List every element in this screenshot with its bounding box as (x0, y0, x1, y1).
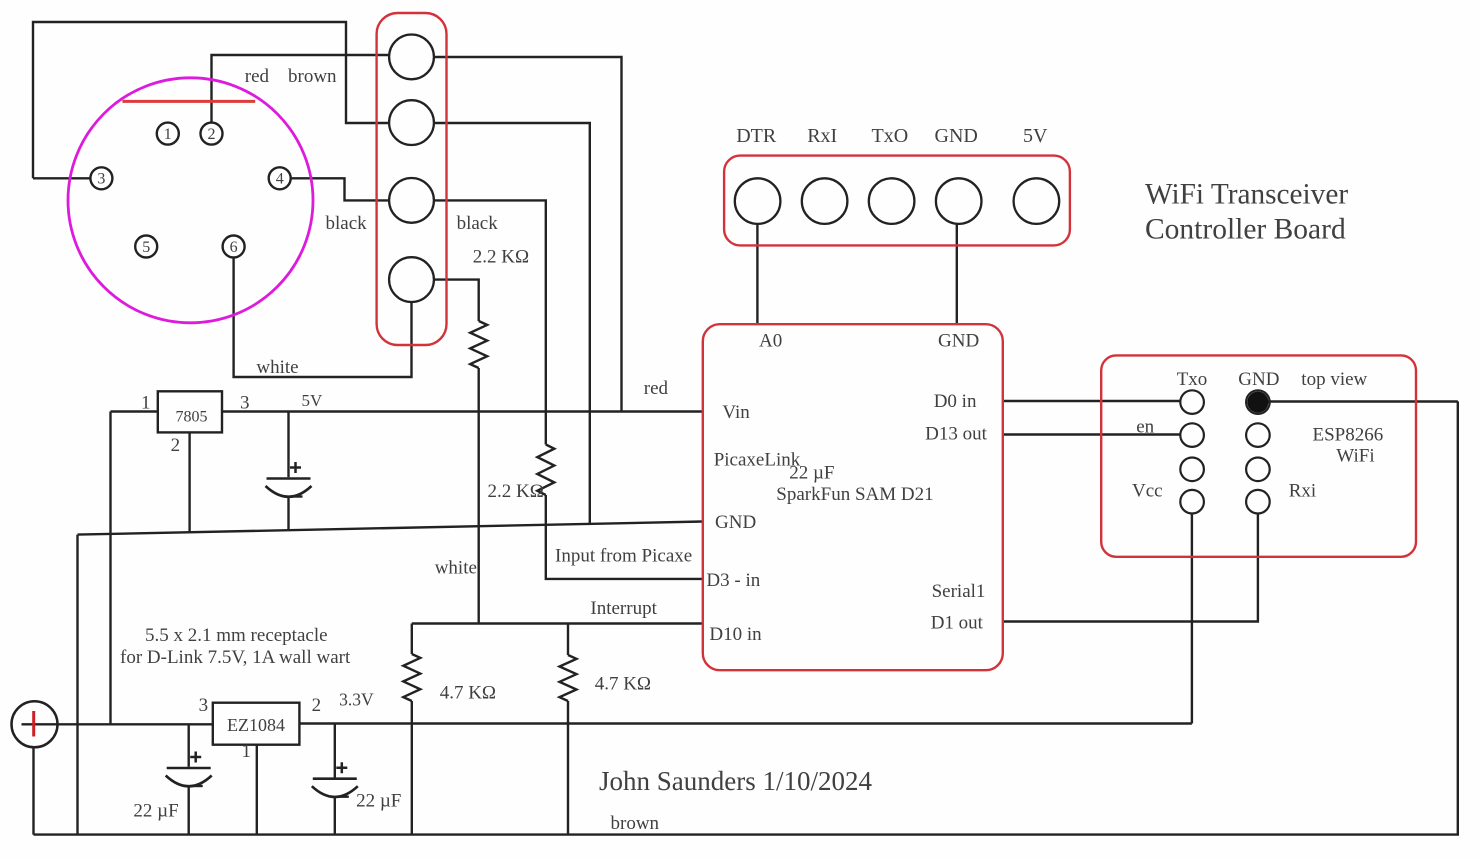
svg-text:4.7 KΩ: 4.7 KΩ (440, 682, 496, 703)
svg-text:6: 6 (230, 239, 238, 256)
svg-text:D13 out: D13 out (925, 423, 987, 444)
svg-text:WiFi Transceiver: WiFi Transceiver (1145, 179, 1348, 211)
svg-text:WiFi: WiFi (1336, 446, 1374, 467)
svg-text:5V: 5V (302, 391, 324, 410)
svg-text:2: 2 (208, 126, 216, 143)
svg-text:4.7 KΩ: 4.7 KΩ (595, 674, 651, 695)
svg-text:Input from Picaxe: Input from Picaxe (555, 546, 692, 567)
svg-text:3: 3 (97, 171, 105, 188)
svg-text:EZ1084: EZ1084 (227, 715, 285, 735)
svg-text:red: red (644, 378, 669, 399)
svg-text:red: red (245, 66, 270, 87)
svg-text:GND: GND (1238, 369, 1279, 390)
svg-text:RxI: RxI (807, 125, 837, 147)
svg-text:John Saunders 1/10/2024: John Saunders 1/10/2024 (599, 766, 872, 796)
svg-text:D1 out: D1 out (931, 612, 984, 633)
svg-text:Serial1: Serial1 (932, 581, 986, 602)
svg-text:4: 4 (276, 171, 284, 188)
svg-text:PicaxeLink: PicaxeLink (714, 449, 801, 470)
svg-text:TxO: TxO (872, 125, 909, 147)
svg-text:Vcc: Vcc (1132, 481, 1163, 502)
svg-text:22 µF: 22 µF (356, 791, 401, 812)
svg-text:22 µF: 22 µF (133, 801, 178, 822)
svg-text:3.3V: 3.3V (339, 690, 374, 710)
svg-text:7805: 7805 (176, 408, 208, 425)
svg-text:1: 1 (242, 741, 252, 762)
svg-text:white: white (256, 357, 298, 378)
svg-text:brown: brown (288, 66, 337, 87)
svg-text:1: 1 (164, 126, 172, 143)
svg-text:top view: top view (1301, 369, 1367, 390)
svg-text:5.5 x 2.1 mm receptacle: 5.5 x 2.1 mm receptacle (145, 625, 328, 646)
svg-text:1: 1 (141, 393, 151, 414)
svg-text:2: 2 (312, 695, 322, 716)
svg-text:DTR: DTR (736, 125, 777, 147)
svg-text:Interrupt: Interrupt (590, 598, 657, 619)
svg-text:A0: A0 (759, 331, 782, 352)
svg-text:Rxi: Rxi (1289, 481, 1316, 502)
svg-text:5: 5 (142, 239, 150, 256)
svg-text:2.2 KΩ: 2.2 KΩ (473, 247, 529, 268)
svg-text:SparkFun SAM D21: SparkFun SAM D21 (776, 484, 933, 505)
svg-text:D3 - in: D3 - in (706, 570, 760, 591)
svg-text:D0 in: D0 in (934, 391, 977, 412)
svg-text:GND: GND (935, 125, 978, 147)
svg-text:black: black (326, 213, 368, 234)
svg-text:3: 3 (199, 695, 209, 716)
svg-text:GND: GND (938, 331, 979, 352)
svg-text:GND: GND (715, 512, 756, 533)
svg-text:white: white (435, 558, 477, 579)
svg-text:brown: brown (611, 813, 660, 834)
svg-text:black: black (457, 213, 499, 234)
svg-text:en: en (1136, 416, 1154, 437)
svg-text:3: 3 (240, 393, 250, 414)
svg-text:22 µF: 22 µF (789, 462, 834, 483)
svg-text:2: 2 (171, 435, 181, 456)
svg-text:2.2 KΩ: 2.2 KΩ (488, 481, 544, 502)
svg-text:ESP8266: ESP8266 (1313, 425, 1384, 446)
svg-text:D10 in: D10 in (709, 624, 762, 645)
svg-text:5V: 5V (1023, 125, 1048, 147)
svg-text:for D-Link 7.5V, 1A wall wart: for D-Link 7.5V, 1A wall wart (120, 647, 351, 668)
svg-text:Txo: Txo (1177, 369, 1208, 390)
svg-text:Vin: Vin (722, 402, 750, 423)
svg-text:Controller Board: Controller Board (1145, 214, 1346, 246)
